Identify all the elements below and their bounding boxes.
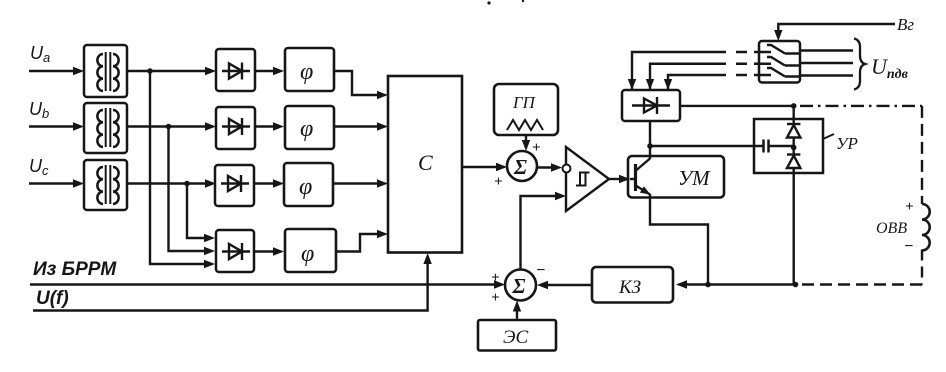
wire C to sum1 [462, 166, 499, 168]
winding OVV [876, 199, 930, 255]
wire switch output b [800, 62, 853, 64]
node junction row2 tap [166, 124, 172, 130]
svg-text:+: + [532, 140, 541, 156]
wire phase b from switch to VD5 [650, 64, 759, 90]
phase shifter F1 [285, 48, 334, 91]
wire VD3 to F3 [254, 182, 276, 184]
wire sum1 to relay element [537, 166, 554, 168]
wire tap A down to 4th rectifier [150, 71, 207, 264]
wire phase c from switch to VD5 [668, 75, 759, 90]
node junction UR mid [791, 145, 797, 151]
speck [522, 0, 524, 2]
plus sign GP input [532, 140, 541, 156]
svg-text:УР: УР [836, 134, 858, 153]
phase shifter F3 [284, 163, 333, 206]
wire Ua input [29, 70, 76, 72]
node Updv label [871, 54, 909, 82]
summing junction S1 [507, 151, 537, 181]
comparison block C [388, 76, 462, 253]
svg-text:+: + [905, 199, 914, 215]
node small circle at relay input [563, 165, 571, 173]
node junction row3 tap [184, 181, 190, 187]
wire phase a from switch to VD5 [632, 52, 759, 90]
svg-text:φ: φ [300, 116, 313, 142]
node label U(f) [36, 288, 69, 309]
node junction row1 tap [147, 68, 153, 74]
node Uc label [29, 156, 49, 178]
wire switch output c [800, 74, 853, 76]
plus sign C input [494, 174, 503, 190]
node junction UR top [791, 103, 797, 109]
node junction bus emitter [705, 282, 711, 288]
svg-text:+: + [494, 174, 503, 190]
wire F3 to C [333, 182, 380, 184]
transformer T2 [84, 103, 127, 153]
wire tap B down to 4th rectifier [169, 127, 208, 252]
wire Ub input [29, 125, 76, 127]
wire UM emitter down and to bus [650, 194, 708, 285]
node junction collector [647, 143, 653, 149]
rectifier VD5 (field supply) [622, 90, 680, 121]
wire U(f) to C bottom [33, 261, 428, 311]
node Ub label [29, 99, 49, 121]
rectifier VD1 row1 [216, 49, 255, 91]
node UR label with leader [823, 134, 858, 153]
minus sign KZ input [536, 262, 546, 279]
svg-text:Σ: Σ [513, 155, 527, 179]
svg-text:ОВВ: ОВВ [876, 220, 907, 237]
wire T2 to diode box row2 [127, 125, 208, 127]
rectifier VD3 row3 [215, 165, 254, 206]
svg-text:КЗ: КЗ [618, 277, 641, 298]
wire relay to UM [609, 178, 622, 180]
speck [487, 1, 490, 4]
wire sum2 output up to relay second input [521, 196, 559, 270]
plus sign left top [491, 270, 500, 286]
summing junction S2 [505, 270, 536, 301]
svg-text:φ: φ [299, 174, 312, 200]
wire ES to sum2 [516, 309, 518, 321]
wire KZ to sum2 [545, 284, 592, 286]
wire F2 to C [334, 125, 380, 127]
relay element D (hysteresis comparator) [566, 147, 609, 211]
svg-text:Σ: Σ [512, 274, 526, 298]
wire tap C down to 4th rectifier [187, 184, 207, 239]
wire T3 to diode box row3 [127, 182, 208, 184]
wire collector junction up to rectifier VD5 [649, 121, 651, 146]
wire UM collector up [649, 146, 651, 159]
wire T1 to diode box row1 [127, 70, 208, 72]
wire UR top connection [793, 106, 795, 119]
wire switch output a [800, 49, 853, 51]
wire VD1 to F1 [255, 70, 276, 72]
wire Uc input [29, 182, 76, 184]
reference block ES [478, 320, 556, 351]
node Vg label [897, 15, 914, 34]
wire Vg to switch [778, 24, 895, 33]
node Ua label [30, 43, 50, 65]
svg-text:−: − [536, 262, 546, 279]
brace for Updv [854, 39, 865, 90]
corrector block KZ [592, 267, 673, 303]
plus sign left bottom [491, 290, 500, 306]
sawtooth generator GP [494, 84, 558, 135]
phase shifter F4 [285, 229, 336, 272]
svg-text:−: − [904, 238, 914, 255]
wire GP to sum1 [525, 135, 527, 143]
node label Iz BRRM [33, 259, 117, 280]
phase shifter F2 [285, 106, 334, 149]
svg-text:Из БРРМ: Из БРРМ [33, 259, 117, 280]
wire UR bottom to bus [793, 173, 795, 285]
wire Iz BRRM to sum2 [30, 283, 497, 285]
svg-text:U(f): U(f) [36, 288, 69, 309]
svg-text:Вг: Вг [897, 15, 914, 34]
svg-text:+: + [491, 270, 500, 286]
transformer T3 [84, 160, 127, 210]
dash-dot boundary right vertical lower [921, 250, 923, 285]
rectifier VD2 row2 [216, 107, 255, 149]
svg-text:φ: φ [300, 59, 313, 85]
transistor in UM [630, 159, 651, 195]
wire VD4 to F4 [254, 250, 276, 252]
switch block (Vg contactor) [759, 41, 800, 83]
wire F1 to C (jog down) [334, 71, 380, 95]
wire collector junction to UR capacitor [650, 145, 763, 147]
dash-dot boundary bottom [796, 283, 923, 285]
svg-text:ГП: ГП [512, 93, 537, 112]
svg-text:УМ: УМ [678, 166, 711, 190]
wire F4 to C (jog up) [336, 234, 380, 252]
dash-dot boundary top right [800, 105, 922, 107]
wire VD2 to F2 [255, 125, 276, 127]
wire VD5 right to UR top junction [680, 105, 794, 107]
svg-text:ЭС: ЭС [503, 327, 528, 348]
svg-text:+: + [491, 290, 500, 306]
rectifier VD4 row4 [216, 230, 254, 272]
transformer T1 [84, 45, 127, 97]
node junction bus UR [793, 282, 799, 288]
thyristor unit UR [754, 119, 823, 173]
wire bus to KZ [684, 283, 796, 285]
dash-dot boundary right vertical upper [921, 106, 923, 204]
power amplifier UM [628, 156, 724, 198]
svg-text:φ: φ [301, 241, 314, 267]
svg-text:С: С [418, 150, 433, 175]
